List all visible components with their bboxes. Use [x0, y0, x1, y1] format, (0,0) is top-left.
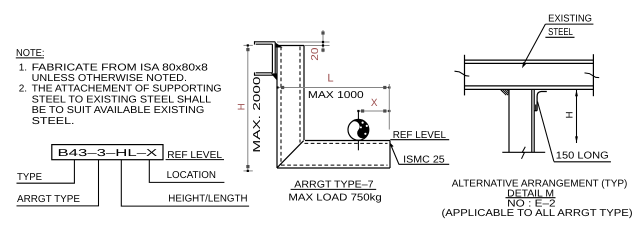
- ISMC 25 underline: [399, 163, 450, 165]
- ISMC 25 leader arrowhead: [389, 142, 393, 147]
- svg-text:STEEL TO EXISTING STEEL SHALL: STEEL TO EXISTING STEEL SHALL: [32, 95, 212, 106]
- post break zigzag: [522, 147, 526, 159]
- svg-text:HEIGHT/LENGTH: HEIGHT/LENGTH: [168, 194, 247, 205]
- svg-text:2.: 2.: [19, 84, 27, 95]
- caption underline: [291, 188, 377, 190]
- svg-text:BE TO SUIT AVAILABLE EXISTING: BE TO SUIT AVAILABLE EXISTING: [32, 105, 205, 116]
- ISMC 25 leader: [391, 145, 399, 165]
- clip angle 150 long: [537, 92, 547, 111]
- dimension X line: [358, 110, 389, 112]
- svg-text:20: 20: [310, 47, 321, 61]
- horizontal member (ISMC): [277, 141, 390, 169]
- svg-text:1.: 1.: [19, 63, 27, 74]
- 20 dimension extension lines: [277, 30, 330, 52]
- supporting bracket (channel clip): [254, 41, 275, 75]
- vertical member (ISMC): [277, 46, 304, 169]
- dimension MAX 1000 line: [277, 87, 389, 89]
- beam break mark right: [585, 73, 600, 78]
- existing steel leader: [524, 24, 546, 64]
- post bottom break line: [502, 151, 545, 153]
- beam break mark left: [455, 71, 470, 76]
- svg-text:MAX 1000: MAX 1000: [308, 90, 364, 101]
- svg-text:ISMC 25: ISMC 25: [403, 154, 445, 165]
- note item 1: [19, 63, 209, 85]
- DETAIL M underline: [506, 197, 556, 199]
- ARRGT TYPE connector line: [17, 160, 99, 206]
- svg-text:MAX. 2000: MAX. 2000: [252, 76, 263, 153]
- svg-text:THE ATTACHEMENT OF SUPPORTING: THE ATTACHEMENT OF SUPPORTING: [32, 84, 222, 95]
- note item 2: [19, 84, 222, 127]
- HEIGHT/LENGTH connector line: [121, 160, 249, 206]
- REF LEVEL underline: [166, 159, 224, 161]
- load point centerline: [357, 111, 359, 150]
- svg-text:(APPLICABLE TO ALL ARRGT TYPE): (APPLICABLE TO ALL ARRGT TYPE): [442, 208, 633, 219]
- weld hatch at post top left: [501, 90, 509, 95]
- existing beam: [465, 54, 594, 96]
- svg-text:STEEL: STEEL: [548, 27, 573, 38]
- extension line right: [388, 84, 390, 130]
- designation box: [52, 145, 163, 160]
- svg-text:B43–3–HL–X: B43–3–HL–X: [58, 148, 158, 159]
- svg-text:L: L: [327, 73, 333, 85]
- weld fillet top of bracket: [276, 43, 283, 48]
- svg-text:TYPE: TYPE: [17, 172, 42, 183]
- svg-text:MAX LOAD 750kg: MAX LOAD 750kg: [288, 193, 381, 204]
- weld fillet bottom of bracket: [271, 73, 277, 80]
- note heading underline: [16, 57, 44, 59]
- 150 LONG leader: [538, 102, 554, 162]
- 20 dim ticks: [321, 31, 324, 34]
- svg-text:LOCATION: LOCATION: [167, 170, 216, 181]
- H dimension line (right): [576, 89, 578, 143]
- note heading: [16, 48, 45, 59]
- svg-text:STEEL.: STEEL.: [32, 116, 75, 127]
- svg-text:H: H: [565, 111, 576, 118]
- svg-text:EXISTING: EXISTING: [548, 14, 592, 25]
- existing steel leader arrowhead: [522, 62, 526, 68]
- load point symbol (yin-yang): [347, 115, 373, 140]
- svg-text:150 LONG: 150 LONG: [556, 151, 609, 162]
- vertical member hidden lines: [281, 47, 300, 166]
- dimension MAX. 2000 line: [244, 45, 253, 170]
- svg-text:X: X: [371, 97, 378, 109]
- svg-text:H: H: [237, 103, 248, 110]
- weld nub on clip: [535, 105, 537, 111]
- svg-text:FABRICATE FROM ISA 80x80x8: FABRICATE FROM ISA 80x80x8: [32, 63, 209, 74]
- horizontal member hidden lines: [281, 143, 388, 165]
- supporting post: [509, 89, 534, 152]
- dim ticks MAX.2000: [246, 48, 249, 51]
- TYPE connector line: [17, 160, 75, 184]
- LOCATION connector line: [149, 160, 224, 183]
- svg-text:ARRGT TYPE: ARRGT TYPE: [17, 194, 80, 205]
- REF LEVEL underline/leader: [390, 139, 449, 141]
- 150 LONG underline: [554, 161, 611, 163]
- svg-text:UNLESS OTHERWISE NOTED.: UNLESS OTHERWISE NOTED.: [32, 73, 187, 84]
